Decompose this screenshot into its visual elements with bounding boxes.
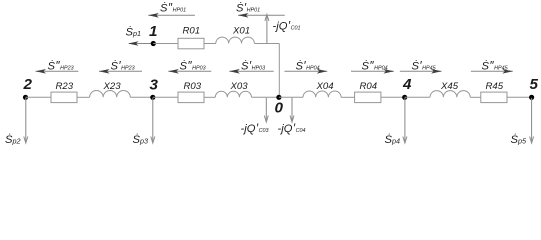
wire node2 to R23 xyxy=(26,96,52,98)
power flow arrow S''np01 xyxy=(148,1,195,18)
power flow arrow S'np45 xyxy=(400,58,442,73)
load arrow Sp2 at node 2 xyxy=(5,98,28,146)
power flow arrow S'np03 xyxy=(229,58,273,73)
wire R01 to X01 xyxy=(204,43,216,45)
load arrow Sp3 at node 3 xyxy=(133,98,155,146)
svg-text:Ṡ′НР45: Ṡ′НР45 xyxy=(412,58,437,72)
wire X04 to R04 xyxy=(341,96,355,98)
svg-text:-jQ′С01: -jQ′С01 xyxy=(273,19,301,33)
power flow arrow S''np03 xyxy=(168,58,211,73)
node 2 xyxy=(23,76,33,100)
resistor R04 xyxy=(355,81,381,103)
svg-text:R45: R45 xyxy=(486,81,504,92)
node 4 xyxy=(402,76,412,100)
resistor R01 xyxy=(178,26,204,49)
wire node4 to X45 xyxy=(405,96,430,98)
svg-text:2: 2 xyxy=(23,76,33,93)
node 3 xyxy=(150,77,159,100)
load arrow Sp5 at node 5 xyxy=(511,98,534,146)
svg-text:Ṡp5: Ṡp5 xyxy=(511,134,527,146)
svg-text:X45: X45 xyxy=(440,81,459,92)
inductor X01 xyxy=(216,26,255,44)
power flow arrow S''np23 xyxy=(36,58,79,73)
svg-text:Ṡ″НР23: Ṡ″НР23 xyxy=(48,58,74,72)
svg-text:-jQ′С03: -jQ′С03 xyxy=(241,121,269,135)
svg-text:R01: R01 xyxy=(183,26,201,37)
svg-text:R03: R03 xyxy=(184,81,202,92)
svg-text:Ṡ′НР23: Ṡ′НР23 xyxy=(111,58,135,72)
power flow arrow S'np01 xyxy=(236,1,285,18)
power flow arrow S''np04 xyxy=(351,58,394,73)
svg-text:Ṡp3: Ṡp3 xyxy=(133,134,148,146)
inductor X45 xyxy=(430,81,470,98)
svg-text:Ṡp2: Ṡp2 xyxy=(5,134,20,146)
charging power arrow -jQ'c03 xyxy=(241,98,269,135)
wire node1 to R01 xyxy=(153,43,178,45)
svg-text:Ṡ′НР04: Ṡ′НР04 xyxy=(296,58,320,72)
svg-text:Ṡ″НР45: Ṡ″НР45 xyxy=(482,58,509,72)
svg-text:Ṡ′НР01: Ṡ′НР01 xyxy=(236,1,260,15)
power flow arrow S'np04 xyxy=(284,58,327,73)
svg-text:Ṡp1: Ṡp1 xyxy=(126,27,141,39)
inductor X04 xyxy=(303,81,341,98)
wire R04 to node4 xyxy=(381,96,405,98)
svg-text:-jQ′С04: -jQ′С04 xyxy=(278,121,306,135)
load arrow Sp1 at node 1 xyxy=(126,27,153,46)
load arrow Sp4 at node 4 xyxy=(385,98,407,146)
resistor R03 xyxy=(178,81,204,103)
node 5 xyxy=(529,76,539,100)
wire X23 to node3 xyxy=(130,96,153,98)
svg-text:X04: X04 xyxy=(316,81,334,92)
svg-text:Ṡ″НР03: Ṡ″НР03 xyxy=(180,58,206,72)
wire R45 to node5 xyxy=(507,96,532,98)
svg-text:0: 0 xyxy=(275,100,284,117)
svg-text:X23: X23 xyxy=(103,81,122,92)
charging power arrow -jQ'c04 xyxy=(278,98,306,135)
wire X03 to node0 xyxy=(252,96,279,98)
svg-text:4: 4 xyxy=(402,76,412,93)
svg-text:Ṡ″НР01: Ṡ″НР01 xyxy=(160,1,186,15)
wire X45 to R45 xyxy=(470,96,481,98)
svg-text:X01: X01 xyxy=(232,26,250,37)
wire node3 to R03 xyxy=(153,96,178,98)
wire R03 to X03 xyxy=(204,96,215,98)
wire node0 to X04 xyxy=(279,96,303,98)
svg-text:Ṡ′НР03: Ṡ′НР03 xyxy=(241,58,265,72)
inductor X23 xyxy=(90,81,131,98)
wire corner down to node 0 xyxy=(278,44,280,98)
resistor R23 xyxy=(51,81,77,103)
resistor R45 xyxy=(481,81,507,103)
node 1 xyxy=(149,23,157,46)
svg-text:Ṡ″НР04: Ṡ″НР04 xyxy=(362,58,388,72)
svg-text:Ṡp4: Ṡp4 xyxy=(385,134,400,146)
wire R23 to X23 xyxy=(77,96,90,98)
wire X01 to corner xyxy=(254,43,279,45)
svg-text:5: 5 xyxy=(530,76,539,93)
svg-text:1: 1 xyxy=(149,23,157,40)
inductor X03 xyxy=(215,81,251,98)
power flow arrow S''np45 xyxy=(471,58,513,73)
svg-text:R23: R23 xyxy=(56,81,74,92)
node 0 xyxy=(275,95,284,117)
svg-text:3: 3 xyxy=(150,77,159,94)
svg-text:X03: X03 xyxy=(230,81,249,92)
charging power arrow -jQ'c01 xyxy=(265,15,301,44)
power flow arrow S'np23 xyxy=(99,58,142,73)
svg-text:R04: R04 xyxy=(360,81,378,92)
